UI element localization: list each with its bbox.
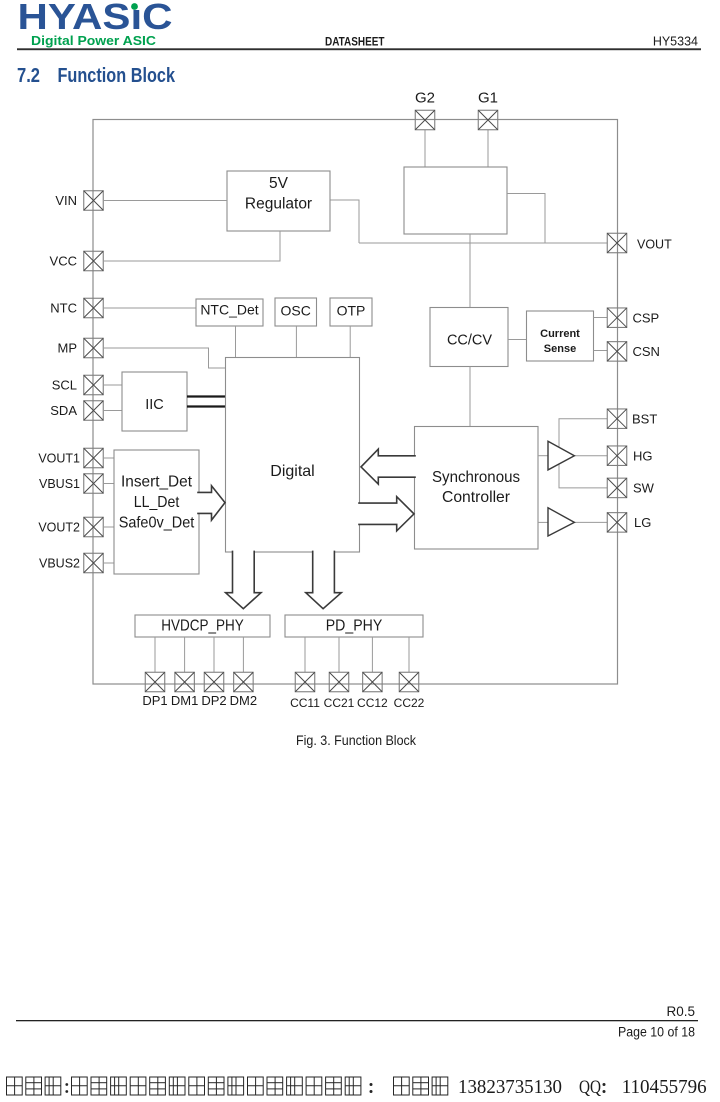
svg-text:VOUT: VOUT [637, 238, 672, 252]
svg-text:IIC: IIC [145, 397, 164, 413]
wire HVDCP_PHY to DP2 [213, 637, 215, 672]
block IIC [122, 372, 187, 431]
pin G1 [478, 110, 498, 130]
wire Synchronous Controller to HG buffer [538, 455, 548, 457]
pin VOUT2 [38, 517, 103, 537]
wire VOUT1 to Insert_Det [104, 457, 114, 459]
svg-text:VBUS2: VBUS2 [39, 557, 80, 571]
arrow Synchronous Controller to Digital [361, 449, 416, 484]
svg-text:Digital: Digital [270, 463, 314, 480]
svg-text:DM1: DM1 [171, 693, 198, 708]
svg-text:OTP: OTP [337, 303, 366, 319]
svg-text:Function Block: Function Block [58, 64, 176, 87]
svg-text:HG: HG [633, 448, 653, 463]
svg-text:BST: BST [632, 411, 657, 426]
svg-text:CSN: CSN [633, 344, 660, 359]
block top driver box [404, 167, 507, 234]
pin DP2 [201, 672, 226, 708]
pin DM1 [171, 672, 198, 708]
svg-text:CC12: CC12 [357, 696, 388, 710]
svg-text:Insert_Det: Insert_Det [121, 474, 193, 491]
svg-text:PD_PHY: PD_PHY [326, 618, 383, 635]
wire HG buffer to HG pin [574, 455, 607, 457]
wire SCL to IIC [104, 384, 122, 386]
svg-text:HYASıC: HYASıC [18, 0, 173, 37]
wire VCC to 5V regulator [104, 231, 280, 261]
svg-text:CC/CV: CC/CV [447, 333, 492, 349]
svg-text:LL_Det: LL_Det [134, 494, 180, 511]
footer distributor line (CJK glyph blocks + contact numbers) [7, 1076, 707, 1098]
svg-text:CC21: CC21 [324, 696, 355, 710]
wire CC/CV to Synchronous Controller [469, 367, 471, 427]
wire HVDCP_PHY to DP1 [154, 637, 156, 672]
wire NTC to NTC_Det [104, 307, 196, 309]
wire HVDCP_PHY to DM1 [184, 637, 186, 672]
block CC/CV [430, 308, 508, 367]
svg-text:CSP: CSP [633, 310, 660, 325]
wire OSC to Digital [295, 326, 297, 358]
svg-text:G2: G2 [415, 90, 435, 107]
wire VIN to 5V regulator [104, 200, 227, 202]
svg-text:Digital Power ASIC: Digital Power ASIC [31, 34, 156, 48]
block PD_PHY [285, 615, 423, 637]
svg-text:DATASHEET: DATASHEET [325, 35, 385, 49]
pin HG [607, 446, 652, 466]
arrow Digital to Synchronous Controller [358, 497, 414, 531]
svg-text:VIN: VIN [55, 193, 77, 208]
pin SCL [52, 375, 104, 395]
pin LG [607, 513, 651, 533]
svg-text:CC22: CC22 [394, 696, 425, 710]
wire HVDCP_PHY to DM2 [242, 637, 244, 672]
svg-text:HY5334: HY5334 [653, 35, 698, 49]
svg-text:Page 10 of 18: Page 10 of 18 [618, 1024, 695, 1040]
wire CC/CV to Current Sense [508, 339, 527, 341]
pin SW [607, 478, 654, 498]
pin G2 [415, 110, 435, 130]
wire PD_PHY to CC11 [304, 637, 306, 672]
block NTC_Det [196, 299, 263, 326]
outer block boundary [93, 120, 618, 685]
pin DP1 [142, 672, 167, 708]
pin CC12 [357, 672, 388, 710]
pin CSP [607, 308, 659, 328]
buffer LG driver [548, 508, 574, 536]
wire 5V regulator to VOUT net [330, 200, 359, 243]
wire G2 to top box [424, 130, 426, 167]
block Current Sense [527, 311, 594, 361]
wire Current Sense to CSN [594, 350, 608, 352]
pin SDA [50, 401, 103, 421]
svg-text:5V: 5V [269, 175, 289, 192]
wire PD_PHY to CC12 [371, 637, 373, 672]
pin VCC [50, 251, 104, 271]
svg-text:110455796: 110455796 [622, 1076, 707, 1098]
wire VOUT2 to Insert_Det [104, 526, 114, 528]
svg-text:CC11: CC11 [290, 696, 320, 710]
block OSC [275, 298, 317, 326]
pin VIN [55, 191, 103, 211]
svg-text:NTC_Det: NTC_Det [200, 302, 258, 318]
svg-text:NTC: NTC [50, 301, 77, 316]
block HVDCP_PHY [135, 615, 270, 637]
svg-text:Current: Current [540, 328, 580, 340]
bus IIC to Digital [187, 397, 226, 407]
wire NTC_Det to Digital [235, 326, 237, 358]
svg-text:SCL: SCL [52, 378, 77, 393]
arrow Digital to PD_PHY [306, 551, 342, 609]
svg-text:Controller: Controller [442, 489, 511, 506]
svg-text:DP1: DP1 [142, 693, 167, 708]
svg-text:SW: SW [633, 481, 655, 496]
wire Synchronous Controller to LG buffer [538, 521, 548, 523]
block 5V Regulator [227, 171, 330, 231]
pin VBUS2 [39, 553, 103, 573]
section heading 7.2 Function Block [17, 64, 175, 87]
block OTP [330, 298, 372, 326]
wire OTP to Digital [349, 326, 351, 358]
svg-text:Sense: Sense [544, 343, 576, 355]
pin CC22 [394, 672, 425, 710]
pin CSN [607, 342, 660, 362]
svg-text:VOUT1: VOUT1 [38, 452, 80, 466]
wire SDA to IIC [104, 410, 122, 412]
wire Current Sense to CSP [594, 317, 608, 319]
wire VBUS2 to Insert_Det [104, 562, 114, 564]
pin BST [607, 409, 657, 429]
logo HYASiC [18, 0, 173, 48]
pin MP [58, 338, 104, 358]
arrow Insert_Det to Digital [197, 486, 225, 520]
svg-text:VOUT2: VOUT2 [38, 521, 80, 535]
svg-text:7.2: 7.2 [17, 64, 40, 87]
wire LG buffer to LG pin [574, 521, 607, 523]
svg-text:HVDCP_PHY: HVDCP_PHY [161, 618, 244, 635]
wire BST to SW net [559, 419, 607, 488]
svg-text:Synchronous: Synchronous [432, 469, 520, 486]
svg-text:Fig. 3. Function Block: Fig. 3. Function Block [296, 732, 417, 748]
svg-text:G1: G1 [478, 90, 498, 107]
pin VOUT [607, 233, 672, 253]
svg-text:SDA: SDA [50, 403, 77, 418]
wire top box to VOUT net [507, 194, 545, 244]
wire G1 to top box [487, 130, 489, 167]
svg-text:DM2: DM2 [230, 693, 257, 708]
svg-text:OSC: OSC [281, 303, 311, 319]
wire VBUS1 to Insert_Det [104, 483, 114, 485]
buffer HG driver [548, 441, 574, 470]
pin DM2 [230, 672, 257, 708]
block Digital [226, 358, 360, 553]
svg-text:VCC: VCC [50, 254, 77, 269]
pin CC21 [324, 672, 355, 710]
header rule [17, 48, 701, 50]
wire MP to Digital [104, 348, 226, 368]
pin VOUT1 [38, 448, 103, 468]
svg-text:Safe0v_Det: Safe0v_Det [119, 514, 195, 531]
footer rule [16, 1020, 698, 1021]
block Insert_Det LL_Det Safe0v_Det [114, 450, 199, 574]
pin NTC [50, 298, 103, 318]
svg-text:LG: LG [634, 515, 651, 530]
pin VBUS1 [39, 474, 103, 494]
svg-text:Regulator: Regulator [245, 195, 312, 212]
svg-text:13823735130: 13823735130 [458, 1076, 562, 1098]
wire VOUT net [359, 242, 607, 244]
wire PD_PHY to CC21 [338, 637, 340, 672]
svg-text:VBUS1: VBUS1 [39, 477, 80, 491]
wire PD_PHY to CC22 [408, 637, 410, 672]
svg-text:R0.5: R0.5 [666, 1004, 695, 1019]
arrow Digital to HVDCP_PHY [226, 551, 261, 609]
svg-text:MP: MP [58, 341, 78, 356]
pin CC11 [290, 672, 320, 710]
block Synchronous Controller [415, 427, 539, 550]
svg-text:QQ: QQ [579, 1077, 601, 1098]
svg-text:DP2: DP2 [201, 693, 226, 708]
wire top box to CC/CV [469, 234, 471, 308]
